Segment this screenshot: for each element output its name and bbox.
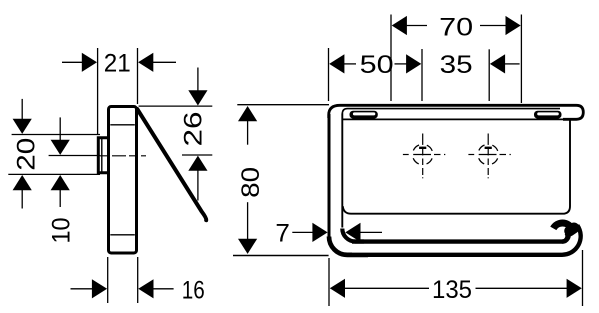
svg-text:10: 10 (47, 218, 75, 244)
svg-text:21: 21 (104, 50, 131, 78)
svg-text:16: 16 (182, 276, 205, 304)
svg-text:20: 20 (12, 138, 40, 171)
svg-text:80: 80 (237, 167, 265, 198)
svg-text:50: 50 (360, 51, 394, 79)
svg-text:35: 35 (440, 51, 473, 79)
svg-text:7: 7 (275, 220, 290, 248)
svg-text:26: 26 (180, 112, 208, 147)
svg-text:135: 135 (432, 276, 472, 304)
svg-text:70: 70 (439, 13, 473, 41)
